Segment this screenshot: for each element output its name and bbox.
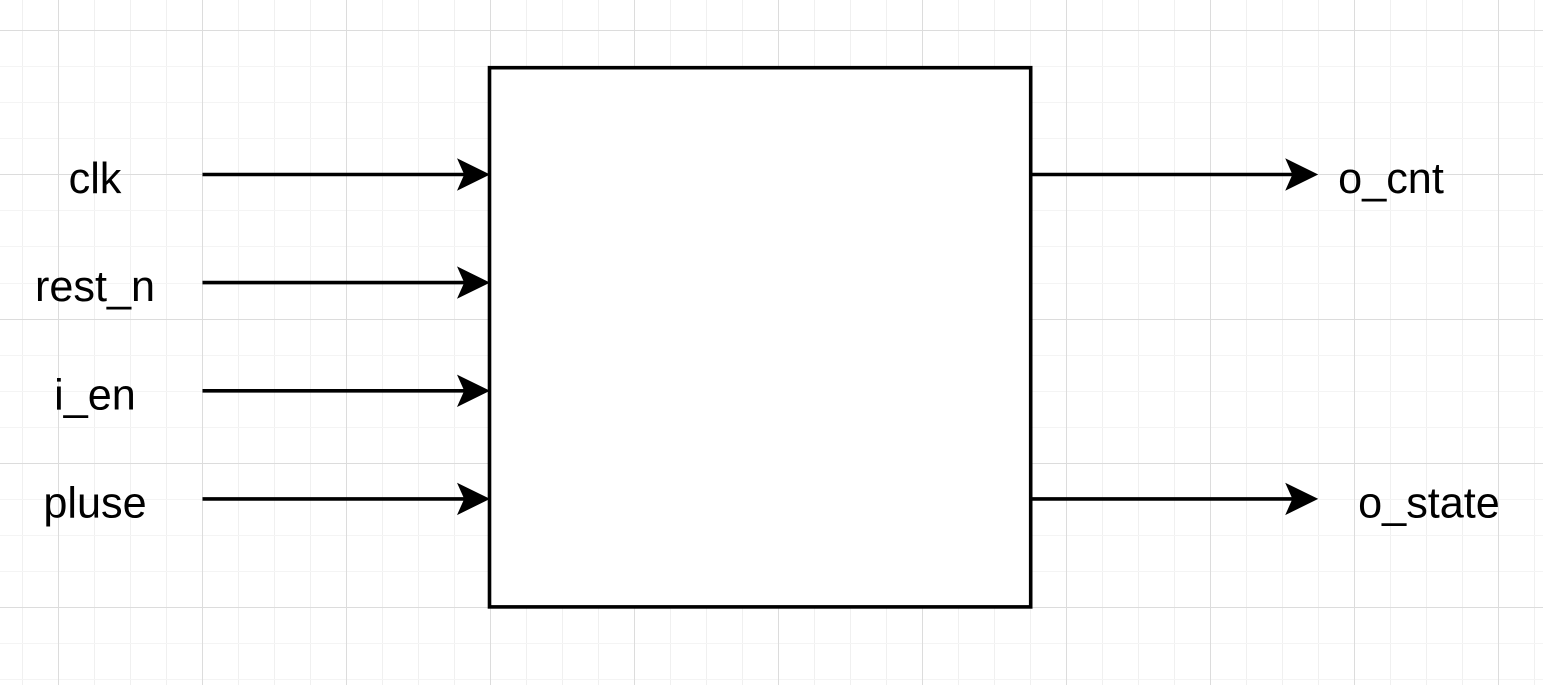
svg-text:o_state: o_state	[1358, 479, 1500, 527]
module block	[490, 68, 1031, 607]
wire pluse input arrow	[203, 483, 491, 515]
svg-text:i_en: i_en	[54, 371, 136, 419]
svg-text:o_cnt: o_cnt	[1338, 155, 1444, 203]
wire o_cnt output arrow	[1031, 158, 1319, 190]
svg-text:pluse: pluse	[43, 479, 146, 527]
wire o_state output arrow	[1031, 483, 1319, 515]
svg-text:clk: clk	[69, 155, 122, 203]
wire rest_n input arrow	[203, 266, 491, 298]
wire i_en input arrow	[203, 375, 491, 407]
svg-text:rest_n: rest_n	[35, 263, 155, 311]
wire clk input arrow	[203, 158, 491, 190]
